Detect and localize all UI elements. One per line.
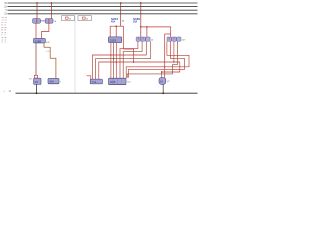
bus rail 30 <box>8 2 198 4</box>
junction on ground rail left <box>36 92 38 94</box>
bus rail 15 <box>8 6 198 8</box>
svg-text:S204: S204 <box>111 17 118 21</box>
svg-text:J519: J519 <box>110 39 117 43</box>
node on bus 30 at x37 <box>36 2 38 4</box>
lamp K1 <box>34 78 41 84</box>
wire colour legend <box>2 17 8 44</box>
wire M feed down <box>164 34 166 78</box>
node U2 p2 tap <box>113 58 114 59</box>
wire C1 b to boxB p5 <box>123 41 142 78</box>
wire boxA left stub <box>87 76 91 79</box>
node at 116.2,26.2 <box>116 26 117 27</box>
node M tap <box>164 66 165 67</box>
wire S1 to U1 <box>35 23 37 38</box>
svg-text:J285: J285 <box>35 39 42 43</box>
wire bus drop x120.7 <box>120 3 122 26</box>
component K2 W box <box>48 78 59 83</box>
svg-text:2: 2 <box>60 81 61 83</box>
connector boxB <box>109 78 127 85</box>
wire link between fuses <box>40 20 45 22</box>
wire branch to C1 pin2 <box>146 27 148 37</box>
wire bus drop x140.8 <box>140 3 142 37</box>
svg-text:⊥: ⊥ <box>3 90 5 93</box>
junction on ground rail right <box>162 92 164 94</box>
node on bus 30 at x120.7 <box>120 2 122 4</box>
svg-text:K2: K2 <box>35 80 39 84</box>
motor M <box>159 78 166 85</box>
svg-text:rs: rs <box>5 41 7 44</box>
wire C1 a to boxB p4 <box>120 41 138 78</box>
bus rail X <box>8 9 198 11</box>
wire C2 a loop to boxB p6 <box>126 41 189 78</box>
relay block C1 <box>136 37 150 41</box>
node C2 c join <box>173 61 174 62</box>
wire header above U2 <box>110 26 121 37</box>
control unit U1 J285 <box>34 38 46 43</box>
wire U2 pin to boxB p1 <box>110 43 112 79</box>
fuse S1 <box>33 19 41 24</box>
wire C2 c drop to loop3 <box>173 41 175 62</box>
node U2 p1 tap <box>110 54 111 55</box>
fuse symbol above K1 <box>34 75 37 78</box>
node at 146.9,26.9 <box>146 26 147 27</box>
ground rail 44 <box>16 92 198 94</box>
wire M to ground rail <box>162 84 164 93</box>
relay label blue left <box>133 17 140 24</box>
fuse info box SB right <box>78 16 92 21</box>
connector boxA <box>90 79 102 84</box>
wire boxA q3 long loop to M left pin <box>99 62 180 79</box>
wire U1 to fuse K1 (brown) <box>35 43 37 75</box>
wire header to C2 <box>141 27 171 37</box>
wire K1 to ground rail <box>36 84 38 93</box>
node on bus 30 at x51.5 <box>51 2 53 4</box>
svg-text:W6: W6 <box>50 80 55 84</box>
wire branch right to x123.6 <box>121 25 124 27</box>
fuse S2 <box>45 19 53 24</box>
svg-text:rs: rs <box>2 41 4 44</box>
wire U2 pin to boxB p2 <box>113 43 115 79</box>
wire red drop x37 <box>36 3 38 19</box>
wire U1 to K2 (orange) <box>44 43 56 78</box>
wire S2 to U1 <box>42 23 49 38</box>
wire red drop x51.5 <box>51 3 53 19</box>
wire branch to U2 pin2 <box>115 26 117 37</box>
control unit U2 <box>108 37 121 43</box>
node U2 p3 tap <box>116 62 117 63</box>
svg-text:M4: M4 <box>29 78 32 80</box>
svg-text:30A: 30A <box>133 21 138 24</box>
wire v1 from header to nest <box>124 26 134 62</box>
node on bus 30 at x140.8 <box>140 2 142 4</box>
wire branch y34 to M feed <box>165 33 171 35</box>
svg-text:J345: J345 <box>110 80 116 84</box>
wire C2 b loop to boxB right <box>128 41 184 77</box>
wire C2 d inner return to boxB label <box>127 41 177 78</box>
panel divider <box>74 16 76 94</box>
svg-text:40A: 40A <box>111 21 116 24</box>
relay block C2 <box>167 37 181 41</box>
fuse label S204 blue <box>111 17 125 24</box>
node at 140.8,26.9 <box>140 26 141 27</box>
wire C1 d to boxA q2 <box>96 41 151 79</box>
bus rail 31 <box>8 13 198 15</box>
wire C1 c to boxA q1 <box>92 41 146 79</box>
node loop3 corner <box>161 71 162 72</box>
wire U2 pin to boxB p3 <box>115 43 117 79</box>
node v1 join <box>133 62 134 63</box>
svg-text:S180: S180 <box>133 17 140 21</box>
svg-text:T14: T14 <box>92 80 97 84</box>
fuse info box SB left <box>62 16 75 21</box>
